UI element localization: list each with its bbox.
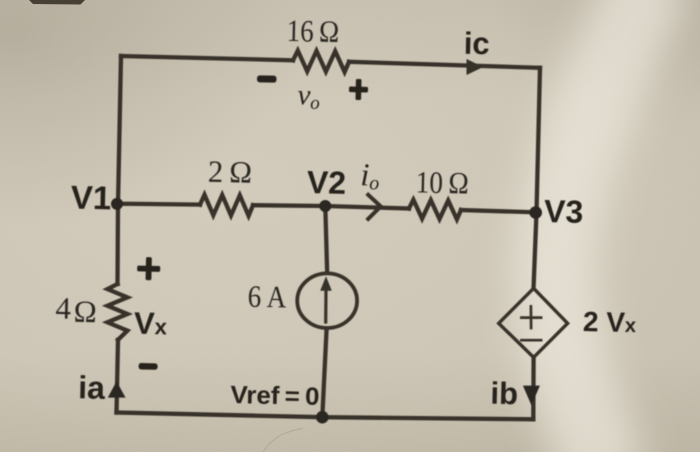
current arrow ib head	[523, 386, 540, 406]
svg-text:ib: ib	[490, 376, 518, 412]
label plus of Vx	[137, 257, 161, 281]
svg-text:Ω: Ω	[73, 294, 97, 330]
faint hair scratch near bottom	[263, 429, 303, 452]
dark mark at top edge	[29, 0, 85, 5]
wire bottom	[117, 413, 534, 420]
svg-text:Vref = 0: Vref = 0	[230, 381, 320, 411]
current arrow io open chevron	[368, 195, 381, 219]
svg-text:ic: ic	[463, 26, 490, 62]
plus sign inside diamond	[521, 306, 541, 328]
svg-text:16 Ω: 16 Ω	[286, 13, 339, 49]
current arrow ia head	[108, 381, 126, 397]
label plus of vo	[349, 79, 368, 100]
node Vref dot	[316, 411, 329, 424]
wire top-right segment	[349, 62, 540, 68]
current arrow ic head	[467, 59, 484, 75]
svg-text:V2: V2	[307, 164, 347, 201]
wire top-left segment	[121, 56, 293, 60]
wire left vertical lower	[117, 340, 119, 413]
node V1 dot	[111, 198, 123, 210]
label minus of Vx	[139, 363, 158, 370]
wire middle from V1 to 2-ohm resistor	[117, 202, 200, 207]
svg-text:V3: V3	[544, 193, 584, 230]
wire left vertical upper	[118, 56, 122, 284]
node V2 dot	[319, 200, 331, 212]
current source I1 6A circle	[297, 273, 357, 328]
arrow inside 6A source	[324, 289, 327, 322]
dependent source U1 diamond 2Vx	[499, 288, 568, 357]
wire right vertical upper	[534, 68, 540, 287]
svg-text:V1: V1	[70, 179, 111, 217]
svg-text:10 Ω: 10 Ω	[415, 164, 469, 200]
svg-text:ia: ia	[78, 369, 106, 406]
resistor R2 4 ohm	[108, 284, 128, 340]
svg-text:6 A: 6 A	[247, 279, 287, 315]
svg-text:2 Ω: 2 Ω	[208, 154, 253, 190]
resistor R4 10 ohm	[409, 200, 461, 220]
resistor R3 2 ohm	[200, 195, 253, 216]
wire right vertical lower	[531, 359, 536, 419]
label minus of vo	[257, 75, 277, 82]
node V3 dot	[529, 206, 542, 219]
wire middle from resistor to V3	[461, 210, 536, 212]
wire middle from resistor to V2 and beyond	[253, 205, 409, 208]
wire branch from source to bottom node	[322, 331, 326, 417]
resistor R1 16 ohm	[293, 51, 349, 72]
svg-text:4: 4	[55, 290, 72, 325]
wire branch from V2 down to current source	[325, 206, 327, 270]
light diagonal sheen on right side	[555, 0, 655, 452]
minus sign inside diamond	[521, 339, 541, 342]
